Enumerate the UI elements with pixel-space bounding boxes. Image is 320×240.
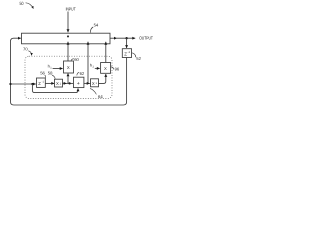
svg-text:X: X [92,81,95,86]
svg-text:INPUT: INPUT [66,6,76,11]
wire feedback loop [11,38,127,105]
wire input arrow [67,12,69,33]
dashed filter block 70 [25,56,112,98]
svg-text:58: 58 [48,71,53,76]
svg-text:96: 96 [115,67,120,72]
wire 60 up into delay line [67,42,69,61]
label 52 [132,53,142,61]
node output junction [125,37,127,39]
label 56 [40,71,45,78]
svg-text:1: 1 [60,82,62,85]
wire into filter [11,83,36,85]
label 62 [77,71,85,76]
node feedback tap [9,83,11,85]
svg-text:1: 1 [50,67,52,70]
svg-text:70: 70 [23,47,28,52]
node multiplier tap [69,82,71,84]
svg-text:64: 64 [98,94,103,99]
svg-text:62: 62 [80,71,85,76]
multiplier 96 [101,63,111,74]
svg-text:X: X [56,81,59,86]
node bypass junction [31,83,33,85]
svg-text:-1: -1 [128,50,131,54]
label 54 [90,22,99,32]
delay register 56 [37,78,46,87]
label 96 [111,67,120,72]
svg-text:1: 1 [96,82,98,85]
wire tap up to multiplier 60 [67,73,69,83]
svg-text:56: 56 [40,71,45,76]
svg-text:X: X [67,65,70,70]
svg-text:OUTPUT: OUTPUT [139,35,153,40]
multiplier 58 [55,79,63,87]
wire junction to Z52 [126,38,128,48]
adder 62 [74,77,84,87]
label 60 [71,57,80,62]
wire output from delay line [110,37,117,39]
dots inside delay line [67,35,69,37]
svg-text:60: 60 [74,57,79,62]
label 64 [90,89,103,99]
svg-text:X: X [104,66,107,71]
wire adder 62 to 64 [84,82,90,84]
svg-text:50: 50 [20,1,24,6]
label 70 [23,47,32,56]
label 58 [48,71,55,79]
multiplier 60 [64,61,74,73]
delay line box 54 [22,33,111,44]
svg-text:52: 52 [136,56,141,61]
wire 58 to adder 62 [63,82,67,84]
svg-text:2: 2 [93,65,95,68]
multiplier 64 [91,79,99,87]
wire 96 up into delay line [105,42,107,63]
svg-text:+: + [77,81,80,87]
wire 64 to multiplier 96 [99,74,106,83]
svg-text:-1: -1 [42,81,45,84]
wire h1 into 60 [53,68,63,70]
wire h2 into 96 [95,67,100,69]
svg-text:54: 54 [94,22,99,27]
label 50 [20,1,34,9]
wire bypass to adder [32,84,78,93]
delay register Z52 [122,49,131,58]
wire 56 to 58 [45,82,54,84]
wire tap up into delay line [87,42,89,84]
